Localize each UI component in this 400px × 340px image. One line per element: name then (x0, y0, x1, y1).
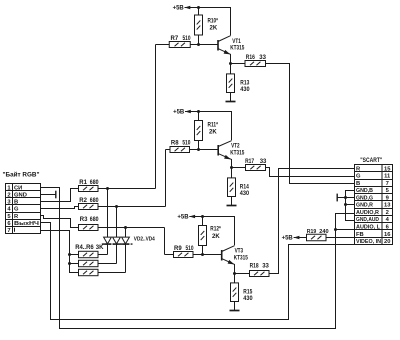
svg-text:R1: R1 (79, 180, 87, 186)
svg-text:G: G (14, 207, 19, 213)
svg-text:FB: FB (356, 232, 364, 238)
svg-text:GND,R: GND,R (356, 203, 374, 209)
svg-text:+5B: +5B (173, 5, 185, 11)
svg-text:2K: 2K (209, 130, 217, 136)
svg-text:7: 7 (7, 228, 10, 234)
svg-text:510: 510 (183, 36, 192, 42)
svg-text:G: G (356, 174, 361, 180)
svg-text:B: B (356, 181, 360, 187)
svg-text:510: 510 (182, 141, 191, 147)
svg-text:R14: R14 (240, 184, 250, 190)
svg-text:11: 11 (384, 174, 391, 180)
svg-text:AUDIO, L: AUDIO, L (356, 225, 380, 231)
svg-text:2: 2 (7, 192, 10, 198)
svg-text:+5B: +5B (177, 214, 189, 220)
svg-text:GND,B: GND,B (356, 188, 373, 194)
svg-text:GND,G: GND,G (356, 195, 373, 201)
svg-text:680: 680 (90, 180, 99, 186)
svg-text:KT315: KT315 (234, 255, 249, 261)
svg-text:+5B: +5B (173, 109, 185, 115)
svg-text:2: 2 (386, 210, 389, 216)
svg-text:VT3: VT3 (235, 249, 244, 255)
svg-text:13: 13 (384, 203, 391, 209)
svg-text:7: 7 (386, 181, 389, 187)
svg-text:GND: GND (14, 192, 27, 198)
svg-text:VD2..VD4: VD2..VD4 (134, 237, 156, 243)
svg-text:R4..R6: R4..R6 (75, 245, 94, 251)
svg-text:R7: R7 (171, 36, 179, 42)
svg-text:R17: R17 (245, 159, 255, 165)
svg-text:"SCART": "SCART" (360, 158, 382, 164)
svg-text:R13: R13 (240, 80, 250, 86)
svg-text:2K: 2K (212, 234, 220, 240)
svg-text:R16: R16 (246, 55, 256, 61)
svg-text:R19: R19 (307, 229, 317, 235)
svg-text:R12*: R12* (210, 227, 221, 233)
svg-text:+5B: +5B (282, 235, 294, 241)
svg-text:15: 15 (384, 166, 391, 172)
svg-text:GND,AUD: GND,AUD (356, 217, 379, 223)
svg-text:430: 430 (240, 87, 250, 93)
svg-text:R8: R8 (171, 141, 179, 147)
svg-text:R2: R2 (79, 198, 87, 204)
svg-text:680: 680 (90, 217, 99, 223)
svg-text:R9: R9 (174, 246, 182, 252)
svg-text:KT315: KT315 (230, 46, 245, 52)
svg-text:430: 430 (240, 191, 250, 197)
svg-text:20: 20 (384, 239, 390, 245)
svg-text:16: 16 (384, 232, 391, 238)
svg-text:"Байт RGB": "Байт RGB" (3, 171, 40, 178)
svg-text:KT315: KT315 (230, 150, 245, 156)
svg-text:СИ: СИ (14, 185, 22, 191)
svg-text:ВыхНЧ: ВыхНЧ (14, 221, 39, 227)
svg-text:AUDIO,R: AUDIO,R (356, 210, 380, 216)
svg-text:240: 240 (319, 229, 328, 235)
svg-text:430: 430 (243, 296, 253, 302)
svg-text:R10*: R10* (208, 18, 219, 24)
svg-text:510: 510 (186, 246, 195, 252)
svg-text:B: B (14, 200, 18, 206)
svg-text:VIDEO, IN: VIDEO, IN (356, 239, 381, 245)
svg-text:33: 33 (262, 264, 269, 270)
svg-text:R18: R18 (250, 264, 260, 270)
svg-text:R15: R15 (243, 289, 253, 295)
svg-text:R3: R3 (80, 217, 88, 223)
svg-text:VT1: VT1 (232, 39, 241, 45)
svg-text:3K: 3K (96, 245, 104, 251)
svg-text:VT2: VT2 (231, 144, 240, 150)
svg-text:33: 33 (260, 159, 267, 165)
svg-text:2K: 2K (210, 26, 218, 32)
svg-text:680: 680 (90, 198, 99, 204)
svg-text:R11*: R11* (208, 122, 219, 128)
svg-text:33: 33 (259, 55, 266, 61)
